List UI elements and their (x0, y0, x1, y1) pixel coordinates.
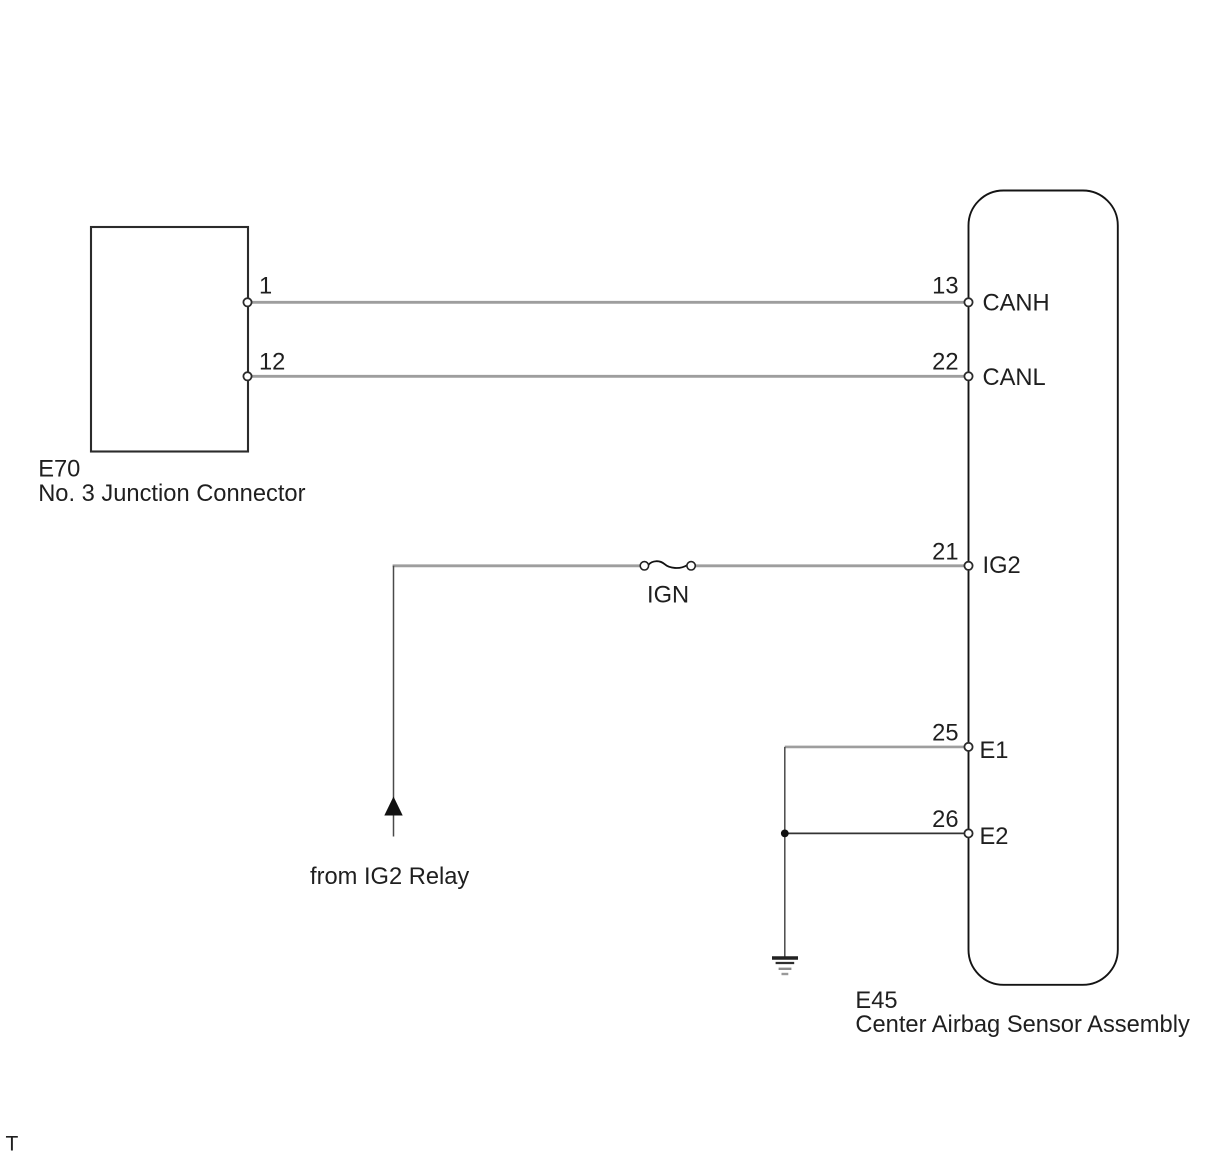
wire riser from IG2 relay (393, 566, 395, 837)
wire E2 (junction to pin 26) (785, 832, 969, 834)
pin 13 circle (964, 298, 972, 306)
arrowhead from IG2 relay (384, 797, 402, 816)
pin 21 circle (964, 562, 972, 570)
connector E45 box (rounded) (969, 191, 1118, 985)
fuse element IGN (648, 561, 687, 568)
svg-text:Center Airbag Sensor Assembly: Center Airbag Sensor Assembly (855, 1012, 1190, 1038)
svg-text:E1: E1 (980, 738, 1009, 764)
wire CANL (pin 12 to pin 22) (248, 375, 969, 378)
wire vertical leg E1 down to ground (784, 747, 786, 957)
svg-text:CANL: CANL (983, 365, 1046, 391)
pin 25 circle (964, 743, 972, 751)
svg-text:IG2: IG2 (983, 553, 1021, 579)
svg-text:CANH: CANH (983, 291, 1050, 317)
pin 1 circle (243, 298, 251, 306)
pin 22 circle (964, 372, 972, 380)
junction dot (781, 830, 789, 838)
connector E70 box (91, 227, 248, 452)
svg-text:26: 26 (932, 807, 958, 833)
svg-text:22: 22 (932, 349, 958, 375)
svg-text:13: 13 (932, 274, 958, 300)
fuse terminal right (687, 562, 695, 570)
svg-text:21: 21 (932, 540, 958, 566)
fuse terminal left (640, 562, 648, 570)
pin 26 circle (964, 829, 972, 837)
svg-text:E45: E45 (855, 988, 897, 1014)
svg-text:1: 1 (259, 274, 272, 300)
wire IG2 right segment (fuse to pin 21) (691, 564, 969, 567)
svg-text:E70: E70 (38, 456, 80, 482)
ground (772, 958, 798, 974)
svg-text:from IG2 Relay: from IG2 Relay (310, 864, 469, 890)
svg-text:25: 25 (932, 721, 958, 747)
svg-text:No. 3 Junction Connector: No. 3 Junction Connector (38, 481, 305, 507)
wire E1 (to pin 25) (785, 746, 969, 749)
wire IG2 left segment (from IG2 relay riser to fuse) (393, 564, 645, 567)
svg-text:IGN: IGN (647, 583, 689, 609)
pin 12 circle (243, 372, 251, 380)
svg-text:E2: E2 (980, 824, 1009, 850)
svg-text:12: 12 (259, 349, 285, 375)
wire CANH (pin 1 to pin 13) (248, 301, 969, 304)
svg-text:T: T (6, 1133, 19, 1156)
